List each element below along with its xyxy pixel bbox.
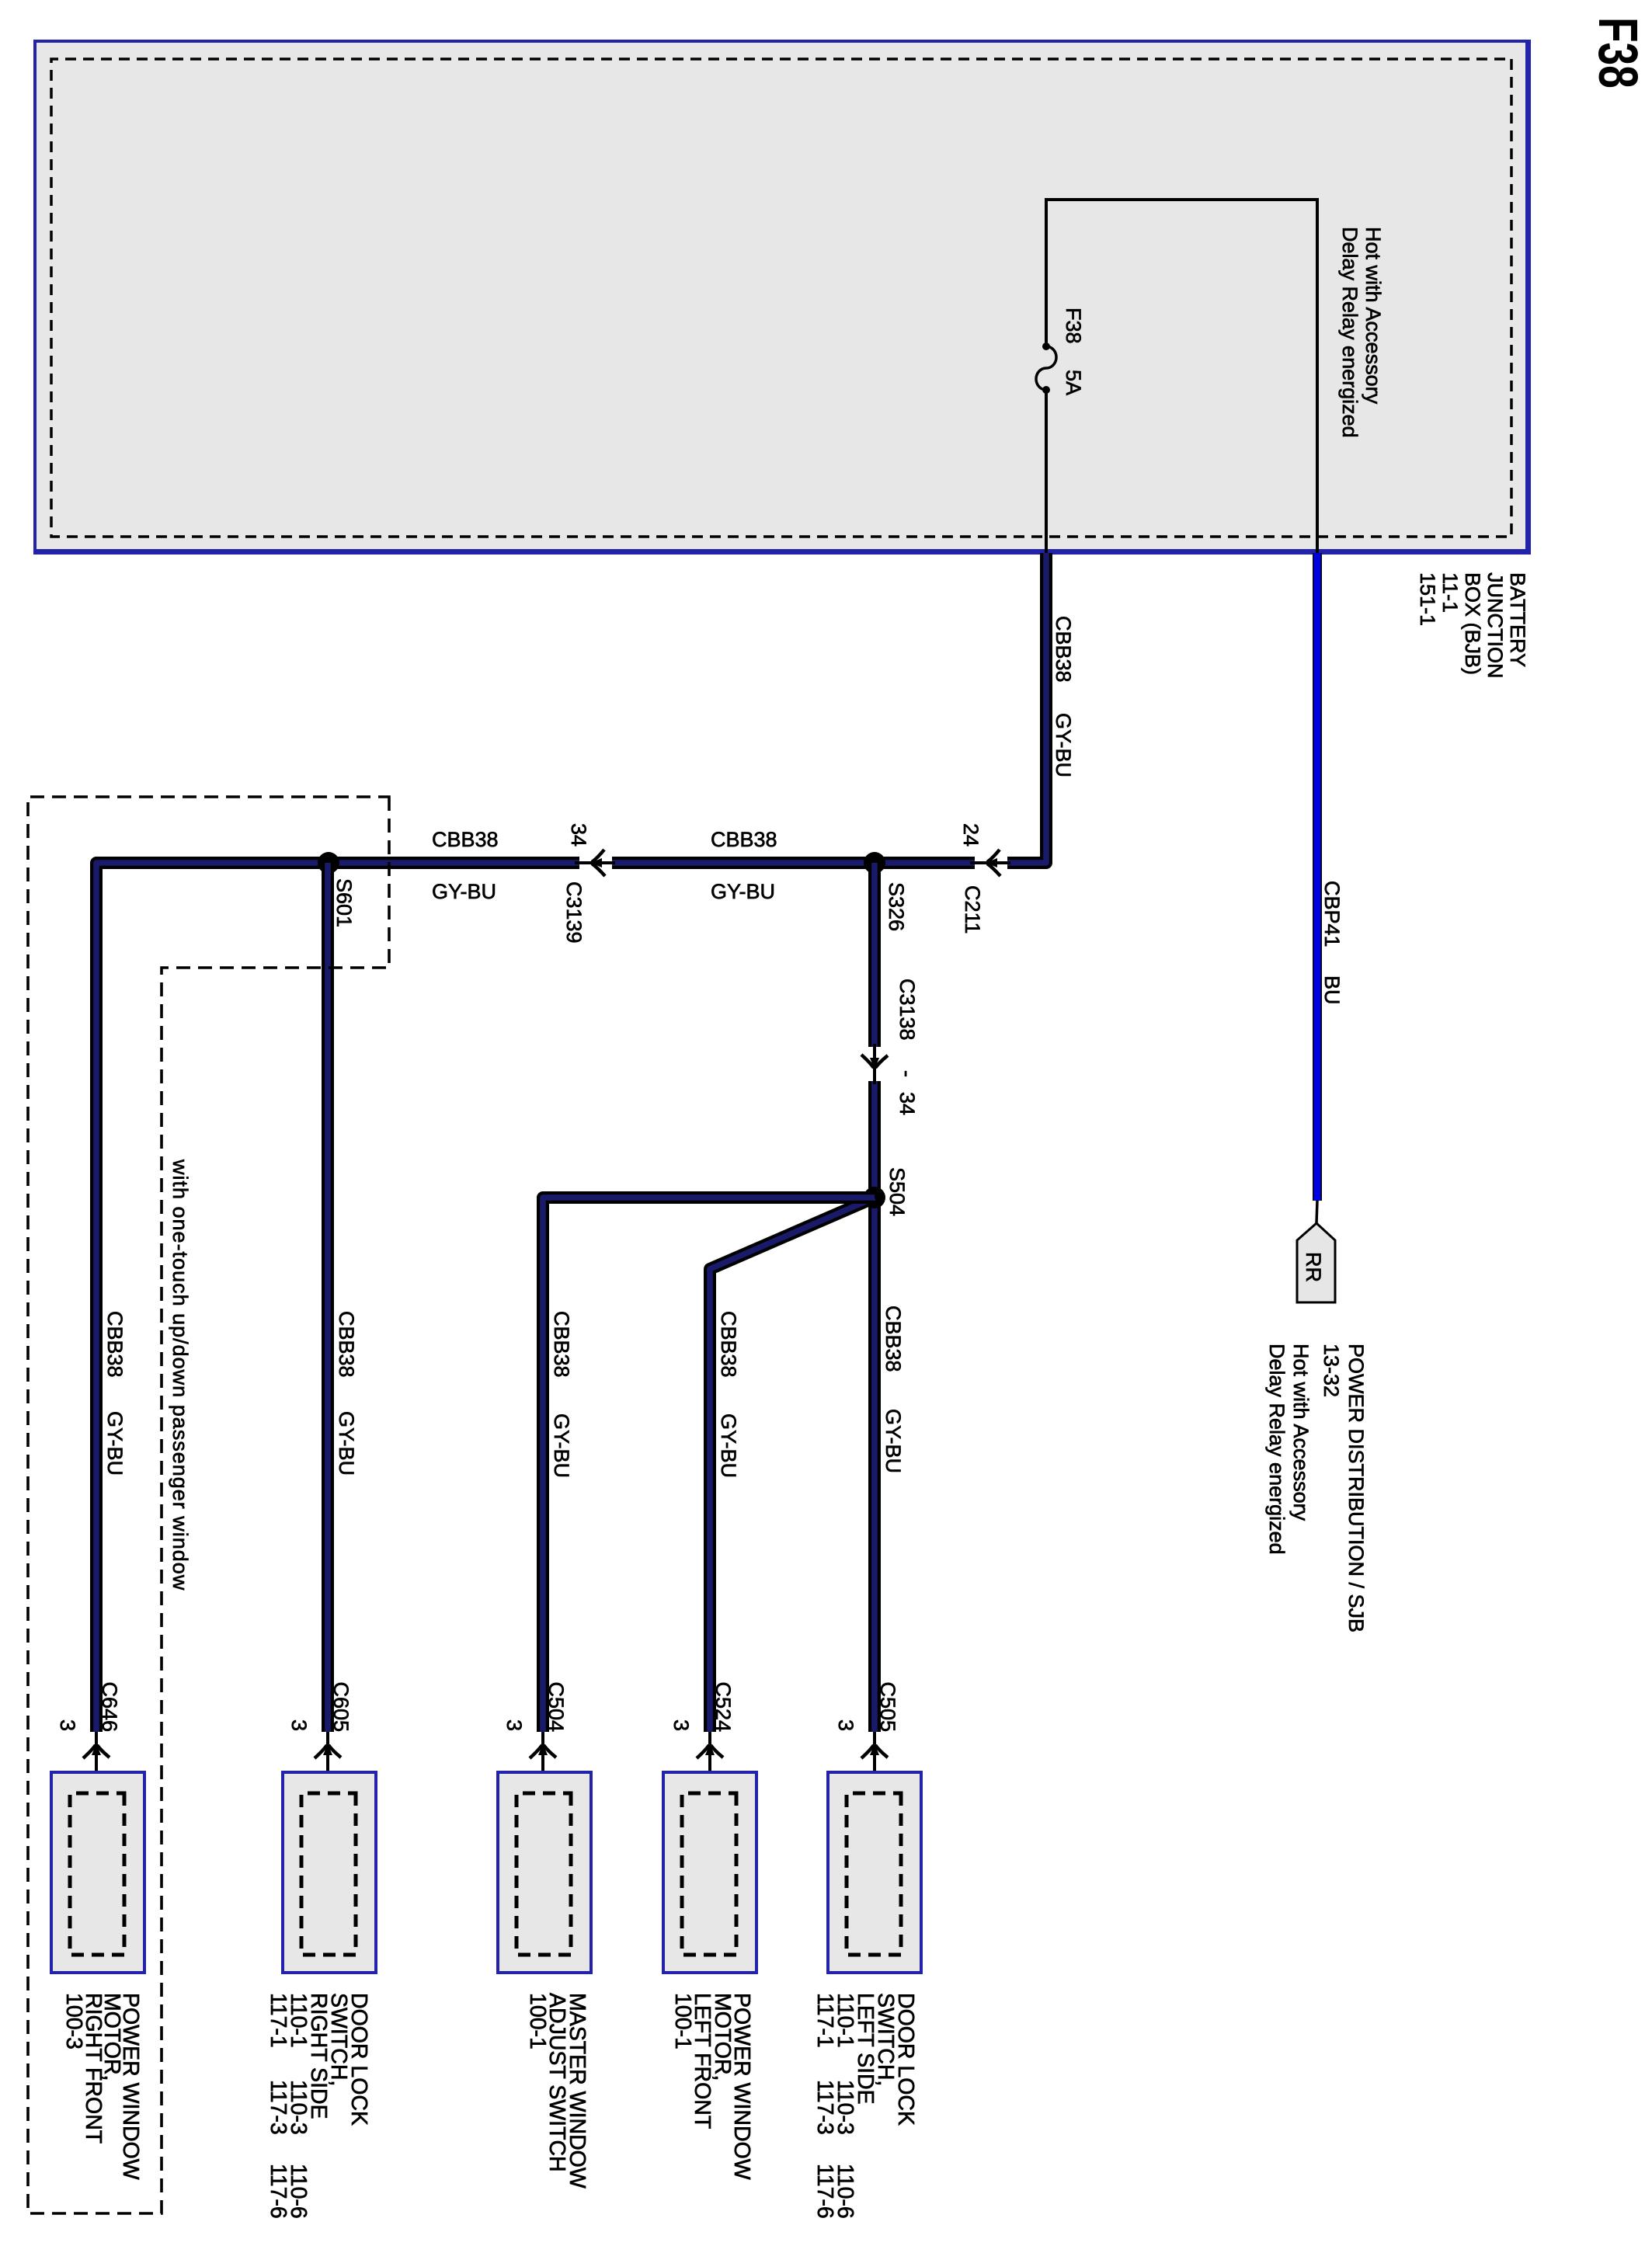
wire branch to S504 (black) [868,863,881,1732]
svg-text:F38: F38 [1587,17,1648,89]
svg-text:3: 3 [503,1719,526,1731]
battery junction box (BJB) outline [35,41,1529,553]
BJB inner dashed border [51,59,1511,537]
svg-text:S504: S504 [885,1167,909,1216]
svg-text:34: 34 [567,823,590,847]
svg-text:CBB38: CBB38 [550,1311,573,1378]
svg-text:34: 34 [896,1092,919,1115]
svg-text:GY-BU: GY-BU [711,880,775,903]
svg-text:C505: C505 [876,1681,899,1732]
svg-text:117-1: 117-1 [266,1993,290,2048]
master window adjust switch box [498,1772,591,1973]
power window motor left front box [663,1772,756,1973]
svg-text:3: 3 [669,1719,693,1731]
svg-text:117-1: 117-1 [812,1993,837,2048]
svg-text:13-32: 13-32 [1320,1344,1343,1397]
svg-text:Hot with Accessory: Hot with Accessory [1362,227,1385,405]
svg-text:POWER DISTRIBUTION / SJB: POWER DISTRIBUTION / SJB [1344,1344,1368,1632]
svg-text:100-1: 100-1 [525,1993,550,2050]
svg-text:S601: S601 [332,878,356,927]
svg-text:3: 3 [56,1719,79,1731]
door lock switch right side box [283,1772,376,1973]
svg-text:Delay Relay energized: Delay Relay energized [1338,227,1362,438]
svg-text:JUNCTION: JUNCTION [1483,572,1507,679]
svg-text:RR: RR [1302,1252,1325,1282]
junction S601 [318,852,339,874]
svg-text:GY-BU: GY-BU [432,880,496,903]
svg-text:with one-touch up/down passeng: with one-touch up/down passenger window [169,1159,192,1591]
svg-text:117-6: 117-6 [266,2164,290,2219]
svg-text:3: 3 [287,1719,311,1731]
optional equipment dashed boundary (one-touch) [28,797,389,2213]
svg-text:151-1: 151-1 [1416,572,1439,626]
svg-text:F38: F38 [1062,308,1085,344]
connector C646 entry [95,1732,98,1793]
svg-text:C211: C211 [961,885,984,934]
connector C3139 pin 34 [575,861,615,864]
svg-text:C3139: C3139 [562,881,586,944]
fuse F38 5A [1042,342,1050,350]
svg-text:GY-BU: GY-BU [882,1409,905,1473]
wire link to off-page flag [1316,1201,1317,1223]
svg-text:C3138: C3138 [896,979,919,1041]
svg-text:117-3: 117-3 [266,2080,290,2135]
svg-text:CBB38: CBB38 [1052,616,1075,683]
svg-text:GY-BU: GY-BU [717,1413,740,1478]
svg-text:5A: 5A [1062,370,1085,395]
svg-text:3: 3 [834,1719,857,1731]
svg-text:117-6: 117-6 [812,2164,837,2219]
svg-text:CBB38: CBB38 [882,1306,905,1372]
svg-text:GY-BU: GY-BU [550,1413,573,1478]
wire inside BJB (bus bar) [1046,200,1317,553]
connector C504 entry [541,1732,544,1793]
power window motor right front box [51,1772,144,1973]
connector C3138 pin 34 [873,1044,876,1084]
svg-text:C524: C524 [711,1681,735,1732]
wire S504 to C504 (black) [543,1198,875,1732]
wire CBP41 BU (blue) [1313,553,1322,1201]
svg-text:C646: C646 [98,1681,121,1732]
junction S326 [864,852,885,874]
svg-text:-: - [896,1070,919,1077]
svg-text:11-1: 11-1 [1438,572,1462,613]
wire CBB38 GY-BU main run (black) [96,553,1046,1732]
svg-text:C605: C605 [329,1681,353,1732]
svg-text:100-1: 100-1 [670,1993,695,2050]
svg-text:BATTERY: BATTERY [1506,572,1529,667]
svg-text:CBB38: CBB38 [103,1311,127,1378]
svg-text:BU: BU [1320,975,1344,1005]
svg-text:Hot with Accessory: Hot with Accessory [1289,1344,1313,1521]
wire S504 to C524 (diagonal, black) [710,1198,875,1732]
svg-text:BOX (BJB): BOX (BJB) [1461,572,1484,675]
off-page reference flag RR [1297,1223,1335,1302]
svg-text:117-3: 117-3 [812,2080,837,2135]
connector C211 pin 24 [970,861,1010,864]
connector C505 entry [873,1732,876,1793]
junction S504 [864,1187,885,1208]
wire S601 to C605 (black) [322,863,334,1732]
svg-text:C504: C504 [544,1681,568,1732]
wire branch to S504 (navy core) [871,863,878,1732]
svg-text:CBB38: CBB38 [432,828,499,851]
wire S504 to C524 (navy core) [710,1198,875,1732]
svg-text:CBP41: CBP41 [1320,881,1344,947]
svg-text:Delay Relay energized: Delay Relay energized [1265,1344,1289,1555]
svg-text:CBB38: CBB38 [711,828,777,851]
svg-text:S326: S326 [885,882,908,931]
wire S601 to C605 (navy core) [325,863,331,1732]
connector C605 entry [326,1732,329,1793]
door lock switch left side box [828,1772,921,1973]
wire S504 to C504 (navy core) [543,1198,875,1732]
connector C524 entry [708,1732,711,1793]
svg-text:GY-BU: GY-BU [103,1411,127,1476]
wire CBB38 GY-BU main run (navy core) [96,553,1046,1732]
svg-text:CBB38: CBB38 [335,1311,358,1378]
svg-text:GY-BU: GY-BU [335,1411,358,1476]
svg-text:24: 24 [959,823,983,847]
svg-text:100-3: 100-3 [61,1993,86,2050]
svg-text:CBB38: CBB38 [717,1311,740,1378]
svg-text:GY-BU: GY-BU [1052,713,1075,777]
